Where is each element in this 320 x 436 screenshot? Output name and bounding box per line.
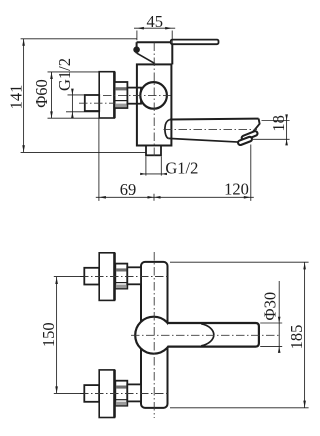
svg-text:G1/2: G1/2	[165, 158, 198, 177]
svg-text:120: 120	[224, 179, 249, 198]
svg-text:150: 150	[39, 322, 58, 347]
svg-text:Φ30: Φ30	[260, 292, 279, 321]
svg-text:45: 45	[146, 12, 163, 31]
svg-text:18: 18	[269, 115, 288, 131]
svg-text:Φ60: Φ60	[32, 79, 51, 108]
svg-text:G1/2: G1/2	[55, 58, 74, 91]
svg-text:185: 185	[287, 325, 306, 350]
svg-text:141: 141	[6, 85, 25, 110]
svg-text:69: 69	[120, 180, 137, 199]
